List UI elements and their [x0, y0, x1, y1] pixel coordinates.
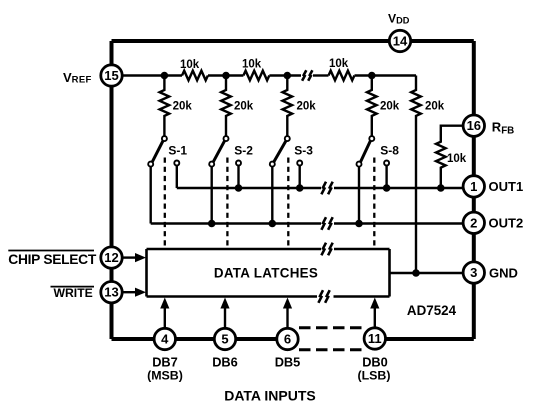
svg-text:S-2: S-2	[234, 143, 253, 157]
svg-text:13: 13	[104, 285, 118, 300]
svg-text:DB0: DB0	[362, 354, 388, 369]
svg-text:16: 16	[467, 118, 481, 133]
svg-text:10k: 10k	[329, 58, 349, 70]
svg-text:10k: 10k	[447, 153, 467, 165]
svg-text:20k: 20k	[234, 101, 254, 113]
svg-text:2: 2	[470, 215, 477, 230]
svg-text:10k: 10k	[242, 59, 262, 71]
svg-text:5: 5	[221, 332, 228, 347]
svg-text:6: 6	[284, 332, 291, 347]
svg-text:20k: 20k	[425, 101, 445, 113]
svg-text:20k: 20k	[173, 101, 193, 113]
svg-text:OUT1: OUT1	[489, 179, 524, 194]
svg-text:S-1: S-1	[168, 143, 187, 157]
svg-text:10k: 10k	[180, 59, 200, 71]
svg-text:DATA LATCHES: DATA LATCHES	[214, 266, 318, 281]
svg-text:WRITE: WRITE	[54, 286, 93, 300]
svg-text:11: 11	[368, 331, 382, 346]
svg-text:S-3: S-3	[294, 143, 313, 157]
svg-text:OUT2: OUT2	[489, 216, 524, 231]
svg-text:14: 14	[393, 34, 408, 49]
svg-text:GND: GND	[489, 266, 518, 281]
svg-text:20k: 20k	[297, 101, 317, 113]
svg-text:1: 1	[470, 179, 477, 194]
svg-text:DB6: DB6	[212, 354, 238, 369]
svg-text:AD7524: AD7524	[407, 303, 457, 318]
svg-text:(MSB): (MSB)	[147, 368, 183, 382]
svg-text:4: 4	[161, 332, 169, 347]
svg-text:DATA INPUTS: DATA INPUTS	[224, 388, 316, 404]
svg-text:DB5: DB5	[275, 354, 301, 369]
svg-text:S-8: S-8	[380, 143, 399, 157]
svg-text:(LSB): (LSB)	[357, 368, 390, 382]
svg-text:3: 3	[470, 265, 477, 280]
svg-text:12: 12	[104, 250, 118, 265]
svg-text:15: 15	[104, 68, 118, 83]
svg-text:CHIP SELECT: CHIP SELECT	[8, 252, 97, 267]
svg-text:DB7: DB7	[152, 354, 178, 369]
svg-text:20k: 20k	[380, 101, 400, 113]
